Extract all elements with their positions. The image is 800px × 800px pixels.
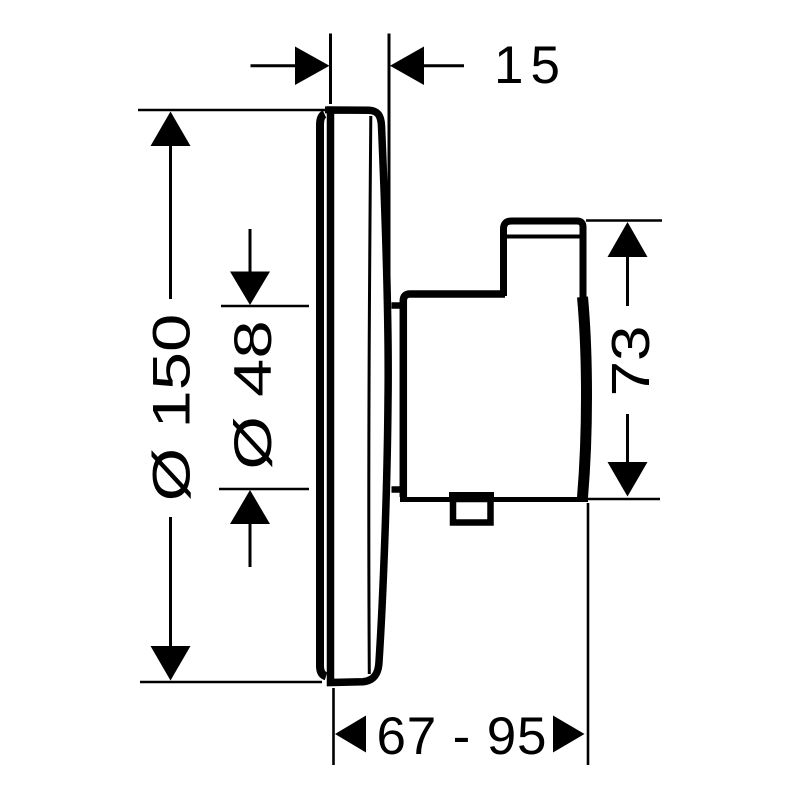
- spout nub: [453, 499, 491, 523]
- dim 15 arrowhead left: [295, 47, 330, 86]
- svg-text:67 - 95: 67 - 95: [377, 707, 547, 766]
- escutcheon plate rim (back flange): [320, 114, 326, 676]
- dim 150 line upper segment: [169, 144, 172, 299]
- plate dome top edge left overhang: [325, 106, 333, 113]
- dim 67-95 arrowhead right: [553, 716, 585, 753]
- dim 48 extension line top: [221, 305, 309, 308]
- spout nub bump: [449, 492, 494, 499]
- dim 48 arrowhead down: [230, 272, 270, 306]
- dim 67-95 extension line right: [587, 503, 590, 765]
- dim 73 extension line top: [586, 219, 662, 222]
- dim 73 arrowhead down: [608, 462, 648, 497]
- dim 15 leader line left: [251, 64, 298, 67]
- dim 73 extension line bottom: [588, 498, 660, 501]
- dim 73 arrowhead up: [608, 222, 648, 257]
- svg-text:73: 73: [601, 326, 661, 397]
- dim 150 extension line bottom: [140, 681, 322, 684]
- dim 48 arrowhead up: [230, 490, 270, 524]
- dim 150 arrowhead down: [151, 646, 191, 681]
- dim 67-95 extension line left: [332, 688, 335, 765]
- dim 15 extension line right: [388, 34, 391, 301]
- dim 150 line lower segment: [169, 517, 172, 648]
- dim 67-95 arrowhead left: [335, 716, 366, 753]
- dim 73 line lower segment: [626, 414, 629, 463]
- shut-off handle inner line: [507, 235, 580, 239]
- dim 48 leader line lower: [249, 521, 252, 567]
- dim 150 extension line top: [138, 109, 325, 112]
- dim 15 arrowhead right: [390, 47, 424, 86]
- dim 48 extension line bottom: [219, 488, 309, 491]
- dim 150 arrowhead up: [151, 112, 191, 147]
- sleeve bottom edge: [392, 486, 404, 493]
- escutcheon plate dome (front profile): [331, 110, 389, 683]
- svg-text:Ø 48: Ø 48: [224, 320, 283, 469]
- dim 73 line upper segment: [626, 256, 629, 306]
- dim 15 leader line right: [423, 64, 464, 67]
- svg-text:Ø 150: Ø 150: [142, 314, 201, 502]
- plate crease line: [369, 116, 371, 674]
- valve body bottom edge: [400, 497, 588, 502]
- valve body outline: [403, 294, 505, 497]
- dim 48 leader line upper: [249, 229, 252, 274]
- sleeve top edge: [392, 302, 404, 309]
- valve body right edge: [583, 297, 587, 498]
- shut-off handle outline: [504, 221, 584, 299]
- dim 15 extension line left: [329, 34, 332, 105]
